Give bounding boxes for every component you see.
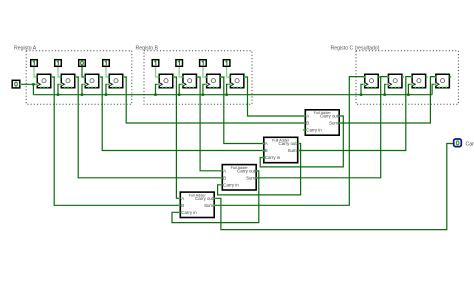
wire FA2 Sum to FF C3 D [299, 77, 412, 151]
FA1 ports [304, 115, 306, 117]
wire clock riser FF C4 [432, 84, 435, 94]
input pin B3 [200, 60, 207, 67]
FF A1 ports [36, 76, 38, 78]
input pin A2 [55, 60, 62, 67]
full adder U1 unconnected carry-in port [303, 129, 305, 131]
wire clock drop to bus [32, 84, 34, 94]
flip-flop C2 [387, 74, 402, 88]
full adder U3 [222, 165, 256, 190]
wire FA1 carry out to FA2 carry in [260, 116, 343, 167]
wire Q B3 to FA2 A input [221, 77, 263, 144]
pin B4 stub [227, 67, 230, 77]
wire FA3 Sum to FF C2 D [257, 77, 388, 178]
full adder U2 [264, 137, 298, 162]
wire Q A2 to FA3 B input [76, 77, 222, 178]
wire clock riser FF B1 [156, 84, 159, 94]
input pin B4 [223, 60, 230, 67]
wire Q B2 to FA3 A input [197, 77, 221, 171]
wire FA3 carry out to FA4 carry in [172, 171, 259, 223]
pin B2 stub [179, 67, 182, 77]
wire Q B4 to FA1 A input [245, 77, 305, 116]
wire Q A3 to FA2 B input [100, 77, 264, 151]
node clock T junction [32, 83, 409, 96]
clock input pin [12, 80, 20, 88]
FA4 ports [179, 198, 181, 200]
wire Q B1 to FA4 A input [174, 77, 180, 198]
pin A4 stub [106, 67, 109, 77]
svg-text:Registo B: Registo B [136, 45, 159, 51]
wire Q A4 to FA1 B input [124, 77, 305, 123]
carry pin port [453, 143, 455, 145]
FA2 ports [262, 143, 264, 145]
wire FA1 Sum to FF C4 D [340, 77, 435, 123]
flip-flop C4 [434, 74, 449, 88]
wire clock riser FF C3 [408, 84, 411, 94]
FF C4 ports [434, 76, 436, 78]
FF C2 ports [387, 76, 389, 78]
register B dashed enclosure [144, 51, 252, 104]
flip-flop C1 [363, 74, 378, 88]
wire clock riser FF A4 [106, 84, 109, 94]
flip-flop B2 [181, 74, 196, 88]
wire clock riser FF C1 [361, 84, 364, 94]
carry chain wires [172, 116, 454, 230]
flip-flop B1 [158, 74, 173, 88]
flip-flop B4 [229, 74, 244, 88]
wire clock riser FF A2 [58, 84, 61, 94]
sum wires to register C [214, 77, 435, 206]
pin B3 stub [203, 67, 206, 77]
FA3 ports [260, 142, 262, 144]
wire clock riser FF C2 [385, 84, 388, 94]
wire clock riser FF B3 [203, 84, 206, 94]
flip-flop A4 [108, 74, 123, 88]
pin A1 stub [34, 67, 37, 77]
pin A2 stub [58, 67, 61, 77]
input pin A1 [31, 60, 38, 67]
input pin A3 [79, 60, 86, 67]
svg-text:Registo C (resultado): Registo C (resultado) [331, 45, 380, 51]
FF C3 ports [411, 76, 413, 78]
register A output drops [52, 77, 305, 205]
pin B1 stub [156, 67, 159, 77]
input pin A4 [103, 60, 110, 67]
wire FA2 carry out to FA3 carry in [218, 144, 301, 195]
input pin B2 [176, 60, 183, 67]
wire clock riser FF B4 [227, 84, 230, 94]
wire clock riser FF A3 [82, 84, 85, 94]
clock pin port [19, 84, 21, 86]
pin A3 value stub (0, dark) [82, 67, 85, 77]
input pin B1 [152, 60, 159, 67]
FF A4 ports [108, 76, 110, 78]
FF B3 ports [205, 76, 207, 78]
FF A3 ports [84, 76, 86, 78]
svg-text:Registo A: Registo A [14, 45, 37, 51]
pin stubs value 1 (bright) [34, 67, 230, 77]
FF B4 ports [229, 76, 231, 78]
flip-flop A2 [60, 74, 75, 88]
wire Q A1 to FA4 B input [52, 77, 180, 205]
wire FA4 Sum to FF C1 D [214, 77, 364, 206]
FF B2 ports [182, 76, 184, 78]
wire clock pin to FF A1 [20, 84, 435, 94]
flip-flop B3 [205, 74, 220, 88]
full adder U1 [305, 110, 339, 135]
wire clock bus [33, 94, 432, 96]
register A dashed enclosure [26, 51, 132, 104]
flip-flop A3 [84, 74, 99, 88]
register C dashed enclosure [356, 51, 458, 104]
flip-flop C3 [410, 74, 425, 88]
svg-text:Carry: Carry [466, 142, 474, 148]
full adder U4 [180, 192, 214, 217]
wire FA4 carry out to carry output pin [214, 144, 454, 230]
wire clock riser FF B2 [179, 84, 182, 94]
FF B1 ports [158, 76, 160, 78]
flip-flop A1 [36, 74, 51, 88]
FF C1 ports [363, 76, 365, 78]
FF A2 ports [60, 76, 62, 78]
output pin Carry [454, 139, 462, 147]
port dots bright green [19, 76, 454, 213]
